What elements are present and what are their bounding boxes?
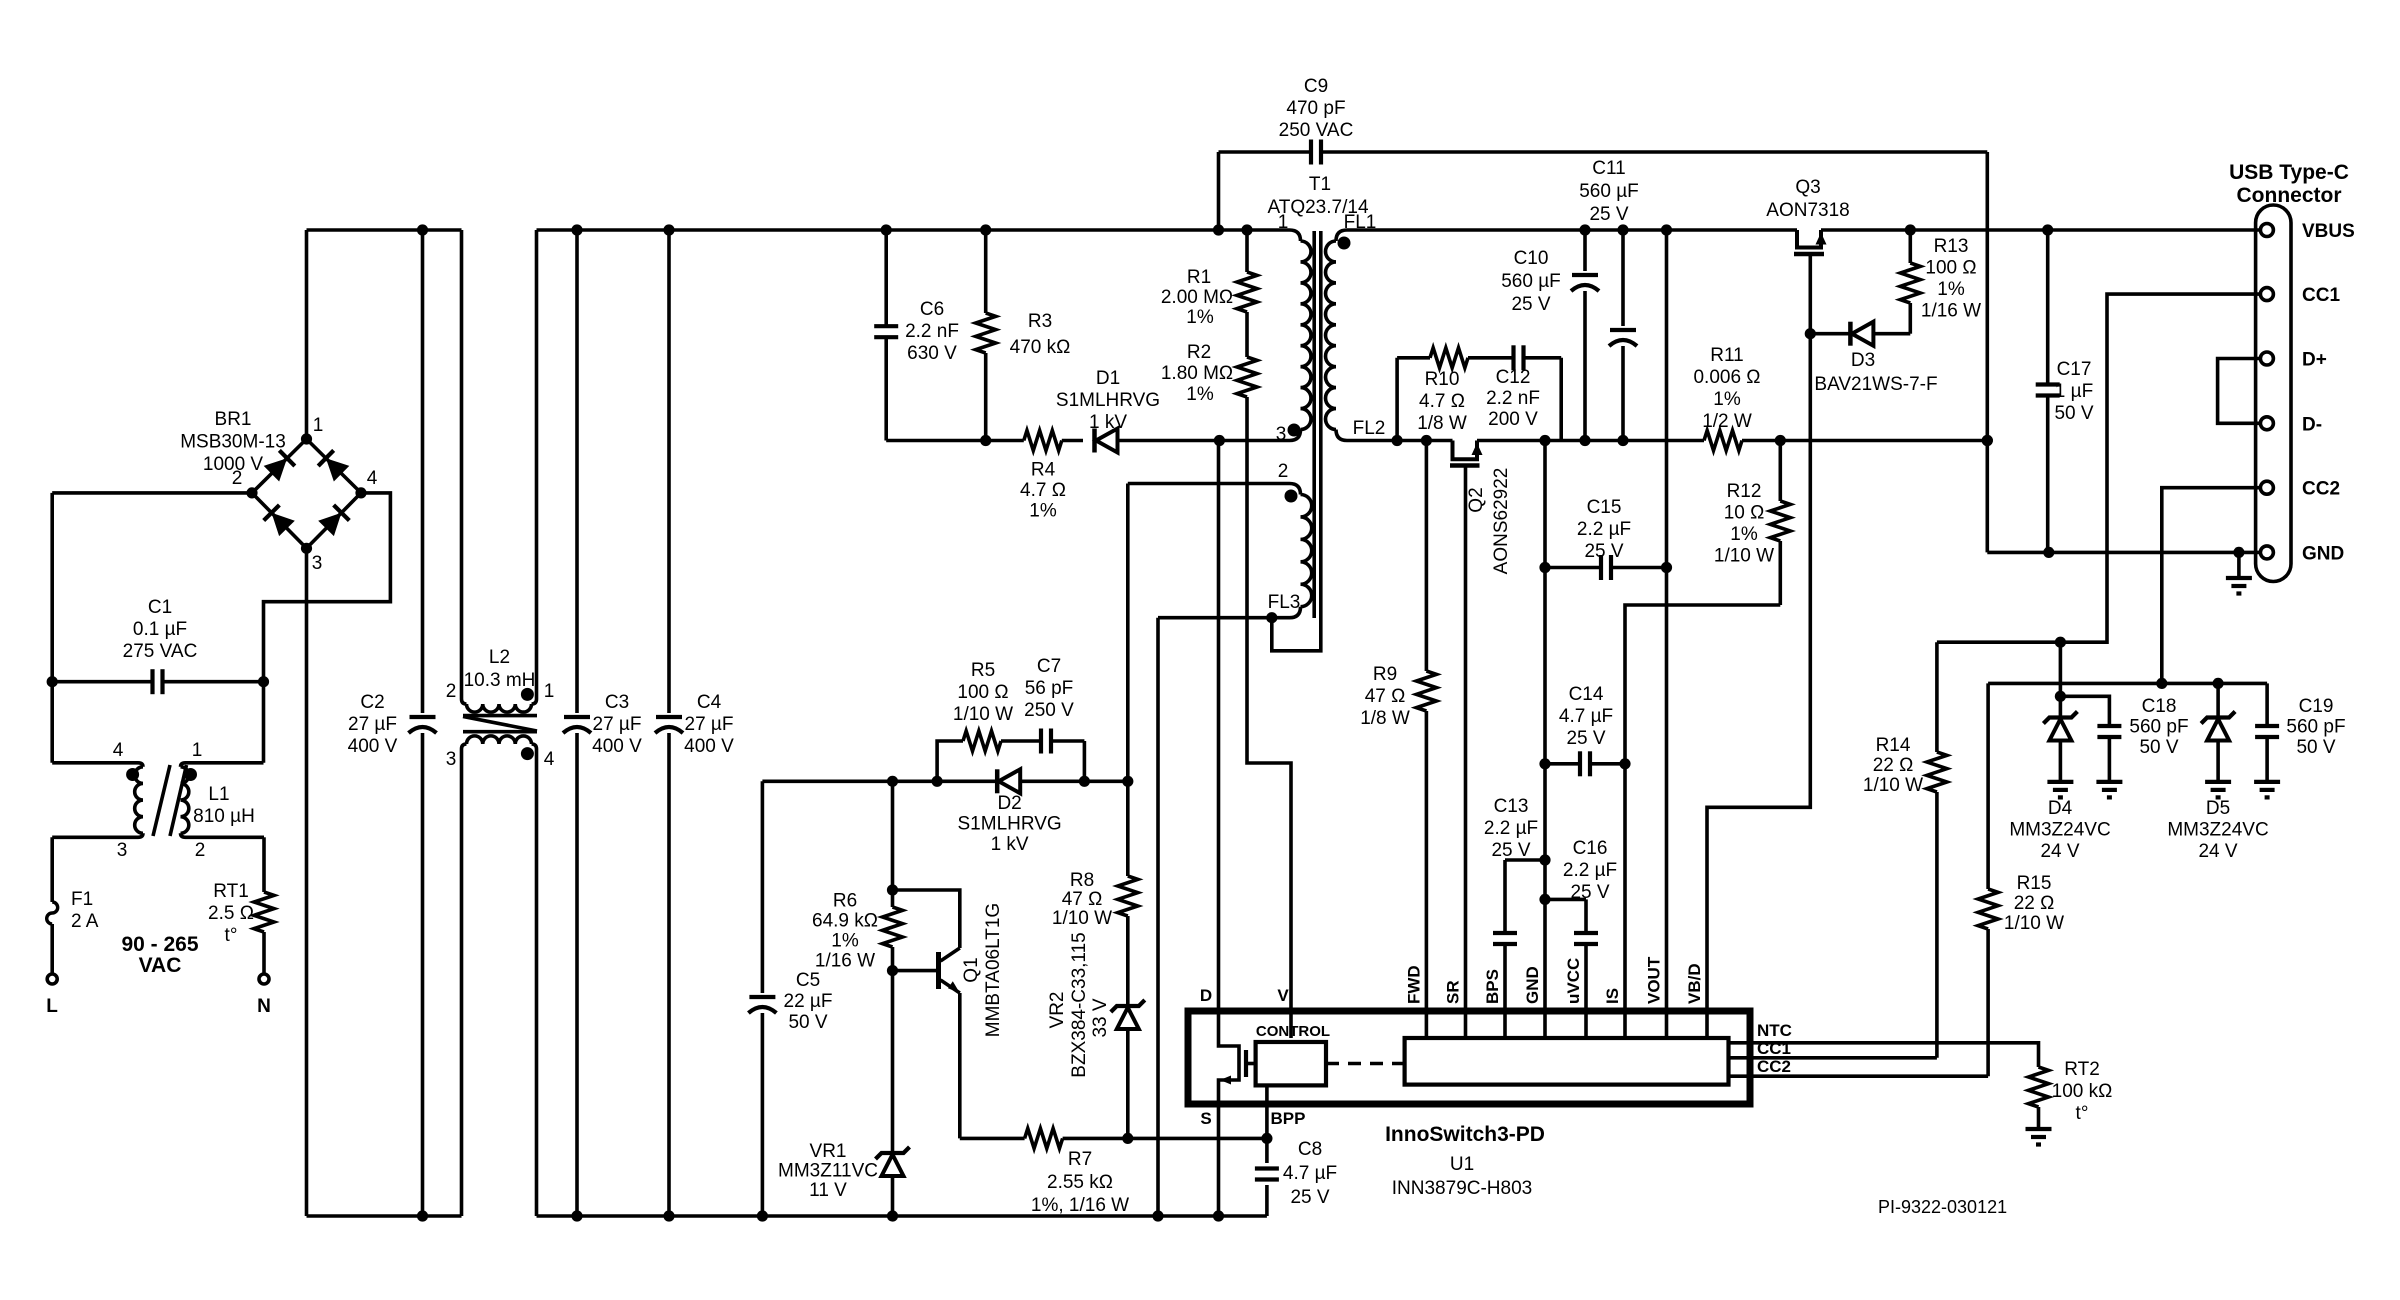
svg-text:L1: L1 [208,784,229,805]
svg-text:R12: R12 [1727,481,1762,502]
svg-text:1%: 1% [1937,279,1965,300]
transformer T1 secondary winding FL1-FL2 [1336,230,1347,241]
wire T1 FL3 to primary ground [1158,616,1290,620]
svg-text:1/8 W: 1/8 W [1417,413,1467,434]
svg-text:VB/D: VB/D [1685,963,1704,1004]
resistor R15 [1986,683,1990,889]
svg-text:R8: R8 [1070,870,1094,891]
svg-text:R4: R4 [1031,460,1056,481]
svg-text:47 Ω: 47 Ω [1365,686,1406,707]
svg-text:25 V: 25 V [1589,204,1628,225]
resistor R2 [1245,326,1249,357]
svg-text:C7: C7 [1037,656,1061,677]
svg-text:10.3 mH: 10.3 mH [464,670,536,691]
wire R7 row [960,1137,1025,1141]
svg-text:RT2: RT2 [2064,1059,2100,1080]
wire D1 to T1 pin3 [1118,439,1290,443]
resistor R9 to FWD pin [1425,441,1429,672]
resistor R3 [984,230,988,313]
svg-text:25 V: 25 V [1491,840,1530,861]
svg-text:1%: 1% [1186,307,1214,328]
svg-text:10 Ω: 10 Ω [1724,503,1765,524]
svg-text:C14: C14 [1569,684,1604,705]
svg-text:R14: R14 [1876,735,1911,756]
svg-text:1/2 W: 1/2 W [1702,411,1752,432]
svg-text:SR: SR [1444,980,1463,1004]
wire NTC to RT2 [1729,1043,2039,1067]
capacitor C12 [1511,345,1515,370]
svg-text:1/10 W: 1/10 W [2004,913,2064,934]
svg-text:t°: t° [225,925,238,946]
svg-text:R1: R1 [1187,267,1211,288]
capacitor C2 [421,230,425,713]
svg-text:C12: C12 [1496,367,1531,388]
terminal L [47,974,57,984]
ground D5 [2205,780,2231,784]
wire R12 to IS pin [1625,605,1780,1038]
wire D pin [1217,441,1221,1012]
node bottom rail junctions right [757,1210,768,1221]
svg-text:R15: R15 [2017,873,2052,894]
wire D+ D- jumper [2218,359,2261,424]
svg-text:D1: D1 [1096,368,1120,389]
svg-text:C3: C3 [605,692,629,713]
wire C1 to L1 pin4 [50,682,54,763]
svg-text:L2: L2 [489,647,510,668]
svg-text:560 pF: 560 pF [2286,717,2345,738]
capacitor C14 [1545,762,1580,766]
svg-text:4.7 µF: 4.7 µF [1559,706,1613,727]
wire GND pin line [1543,441,1547,1039]
capacitor C19 [2265,683,2269,726]
svg-text:C6: C6 [920,299,944,320]
svg-text:1%: 1% [831,931,859,952]
svg-text:V: V [1277,986,1289,1005]
capacitor C9 [1309,140,1313,165]
resistor R14 [1935,642,1939,752]
node top rail junctions [417,224,428,235]
capacitor C10 [1583,230,1587,271]
svg-text:T1: T1 [1309,174,1331,195]
transformer T1 bias winding pin2-FL3 [1290,484,1301,495]
wire FL2 rail [1347,439,1453,443]
svg-text:100 Ω: 100 Ω [1925,258,1976,279]
svg-text:3: 3 [312,553,323,574]
wire clamp bottom row [886,439,1024,443]
resistor R7 [1025,1128,1063,1148]
svg-text:250 VAC: 250 VAC [1279,120,1354,141]
node C1 ends [47,676,58,687]
svg-text:Q3: Q3 [1795,177,1820,198]
diode D3 [1810,332,1849,336]
svg-text:50 V: 50 V [2054,403,2093,424]
svg-text:25 V: 25 V [1570,882,1609,903]
svg-text:VR1: VR1 [810,1141,847,1162]
node C9 GND junction [1982,435,1993,446]
svg-text:400 V: 400 V [684,736,734,757]
svg-text:250 V: 250 V [1024,700,1074,721]
svg-text:C8: C8 [1298,1139,1322,1160]
capacitor C1 [52,680,150,684]
svg-text:4: 4 [367,468,378,489]
svg-text:C19: C19 [2299,696,2334,717]
svg-text:MM3Z24VC: MM3Z24VC [2167,820,2268,841]
wire BR1 pin1 to top rail [305,230,309,439]
svg-text:1/16 W: 1/16 W [815,951,875,972]
svg-text:D: D [1200,986,1212,1005]
inductor L1 common-mode choke [138,763,143,767]
wire CC2 to H2 [2162,488,2261,684]
svg-text:56 pF: 56 pF [1025,678,1074,699]
svg-text:InnoSwitch3-PD: InnoSwitch3-PD [1385,1123,1545,1146]
node FL2 junctions [1392,435,1403,446]
svg-text:BPS: BPS [1483,969,1502,1004]
resistor R1 [1245,230,1249,272]
inductor L2 common-mode choke [460,230,464,699]
svg-text:1 kV: 1 kV [991,834,1029,855]
resistor R12 [1779,441,1783,502]
svg-text:1/16 W: 1/16 W [1921,301,1981,322]
node D pin junction [1214,435,1225,446]
svg-text:50 V: 50 V [2139,737,2178,758]
diode D2 [995,769,1000,793]
svg-text:1: 1 [1278,212,1289,233]
svg-text:D3: D3 [1851,350,1875,371]
wire C9 return to GND [1986,152,1990,552]
svg-text:S: S [1200,1109,1211,1128]
svg-text:BAV21WS-7-F: BAV21WS-7-F [1814,374,1937,395]
capacitor C17 [2046,230,2050,385]
svg-text:NTC: NTC [1757,1021,1792,1040]
svg-text:22 Ω: 22 Ω [1873,755,1914,776]
capacitor C8 [1265,1138,1269,1163]
resistor R10 snubber [1395,358,1399,441]
svg-text:CC2: CC2 [1757,1057,1791,1076]
svg-text:2.55 kΩ: 2.55 kΩ [1047,1172,1113,1193]
fuse F1 [47,902,58,924]
svg-text:VBUS: VBUS [2302,221,2355,242]
svg-text:4.7 Ω: 4.7 Ω [1419,391,1465,412]
wire R11 to output ground [1742,439,1987,443]
svg-text:R5: R5 [971,660,995,681]
svg-text:2: 2 [195,840,206,861]
node T1 primary phase dot [1288,424,1301,437]
zener VR2 [1111,1000,1145,1012]
node FL3 junction [1266,612,1277,623]
zener VR1 [891,971,895,1153]
wire BR1 pin3 to bottom rail [305,548,309,1216]
svg-text:CC1: CC1 [2302,285,2340,306]
svg-text:MSB30M-13: MSB30M-13 [180,432,286,453]
svg-text:AON7318: AON7318 [1766,200,1849,221]
svg-text:R2: R2 [1187,342,1211,363]
svg-text:S1MLHRVG: S1MLHRVG [1056,390,1160,411]
svg-text:275 VAC: 275 VAC [123,641,198,662]
svg-text:2.2 µF: 2.2 µF [1577,519,1631,540]
zener D5 [2216,683,2220,717]
ground RT2 [2037,1107,2041,1129]
wire C9 top link [1219,150,1312,154]
svg-text:GND: GND [2302,543,2344,564]
svg-text:BPP: BPP [1271,1109,1306,1128]
capacitor C15 [1545,566,1601,570]
IC U1 InnoSwitch3-PD outer box [1188,1011,1750,1104]
svg-text:400 V: 400 V [348,736,398,757]
svg-text:25 V: 25 V [1511,294,1550,315]
terminal USB CC1 [2260,288,2273,301]
svg-text:FL2: FL2 [1353,418,1386,439]
node bottom rail junctions [417,1210,428,1221]
svg-text:1/10 W: 1/10 W [1052,908,1112,929]
svg-text:1: 1 [192,740,203,761]
capacitor C6 [884,230,888,326]
svg-text:2.00 MΩ: 2.00 MΩ [1161,287,1233,308]
svg-text:25 V: 25 V [1566,728,1605,749]
svg-text:27 µF: 27 µF [348,714,397,735]
svg-text:Connector: Connector [2237,184,2342,207]
transformer T1 shield return [1272,231,1321,651]
svg-text:N: N [257,996,271,1017]
svg-text:1%: 1% [1029,501,1057,522]
svg-text:U1: U1 [1450,1154,1474,1175]
svg-text:1.80 MΩ: 1.80 MΩ [1161,363,1233,384]
svg-text:2.2 nF: 2.2 nF [1486,388,1540,409]
svg-text:560 µF: 560 µF [1501,271,1561,292]
wire R2 to V pin [1247,420,1291,1038]
wire bias rail [762,779,996,783]
resistor R11 [1704,431,1742,451]
wire C1 to L1 pin1 [262,682,266,763]
node C13 tap [1539,854,1550,865]
ground C18 [2096,780,2122,784]
svg-text:3: 3 [446,749,457,770]
svg-text:S1MLHRVG: S1MLHRVG [958,814,1062,835]
svg-text:R11: R11 [1710,345,1743,366]
wire CC2 row [1988,682,2267,686]
IC U1 CONTROL block [1256,1042,1326,1085]
transistor Q3 VBUS switch [1797,230,1821,248]
terminal USB D- [2260,417,2273,430]
svg-text:L: L [46,996,58,1017]
svg-text:1%: 1% [1186,384,1214,405]
svg-text:INN3879C-H803: INN3879C-H803 [1392,1178,1532,1199]
zener D4 [2059,642,2063,717]
svg-text:1%: 1% [1713,389,1741,410]
wire BPP pin from CONTROL [1265,1085,1269,1138]
wire L1 pin3 to fuse [52,835,138,839]
svg-text:C10: C10 [1514,248,1549,269]
svg-text:47 Ω: 47 Ω [1062,889,1103,910]
svg-text:MMBTA06LT1G: MMBTA06LT1G [983,903,1004,1037]
node CC1 protection tap [2055,637,2066,648]
node R3 bottom [980,435,991,446]
svg-text:2: 2 [1278,461,1289,482]
wire S pin [1217,1104,1221,1216]
node R6 taps [887,884,898,895]
svg-text:D+: D+ [2302,350,2327,371]
wire Q2 drain to R11 [1477,439,1704,443]
svg-text:FWD: FWD [1404,965,1423,1004]
svg-text:1%, 1/16 W: 1%, 1/16 W [1031,1195,1129,1216]
svg-text:3: 3 [117,840,128,861]
wire BR1 pin2 to L side [52,491,252,495]
capacitor C7 [1039,729,1043,754]
wire T1 pin2 to D2 anode [1128,482,1290,486]
svg-text:630 V: 630 V [907,343,957,364]
ground D4 [2047,780,2073,784]
wire R15 to U1 CC2 pin [1729,1074,1989,1078]
wire primary top rail [307,228,462,232]
transformer T1 core [1312,231,1316,618]
node T1 bias phase dot [1285,490,1298,503]
svg-text:C15: C15 [1587,497,1622,518]
svg-text:22 Ω: 22 Ω [2014,893,2055,914]
terminal USB D+ [2260,352,2273,365]
node R1 top [1241,224,1252,235]
svg-text:MM3Z11VC: MM3Z11VC [778,1161,878,1182]
svg-text:3: 3 [1276,424,1287,445]
node C16 tap [1539,894,1550,905]
IC U1 secondary block [1405,1038,1729,1085]
svg-text:AONS62922: AONS62922 [1491,468,1512,575]
svg-text:4: 4 [113,740,124,761]
svg-text:BZX384-C33,115: BZX384-C33,115 [1069,932,1090,1077]
ground C19 [2254,780,2280,784]
thermistor RT1 [262,837,266,892]
svg-text:1 kV: 1 kV [1089,412,1127,433]
wire R14 to U1 CC1 pin [1729,1056,1937,1060]
svg-text:IS: IS [1603,988,1622,1004]
svg-text:100 kΩ: 100 kΩ [2052,1081,2113,1102]
svg-text:C1: C1 [148,597,172,618]
svg-text:2.5 Ω: 2.5 Ω [208,903,254,924]
node C15 ends [1539,562,1550,573]
svg-text:D4: D4 [2048,798,2073,819]
svg-text:C2: C2 [360,692,384,713]
node C18 tap [2055,691,2066,702]
svg-text:11 V: 11 V [809,1180,847,1201]
svg-text:22 µF: 22 µF [784,991,833,1012]
svg-text:90 - 265: 90 - 265 [121,933,198,956]
capacitor C13 to BPS pin [1505,858,1545,862]
capacitor C18 [2060,696,2109,726]
svg-text:Q2: Q2 [1466,487,1487,512]
node D3 anode junction [1805,328,1816,339]
resistor R5 snubber [937,741,963,781]
svg-text:470 pF: 470 pF [1286,98,1345,119]
wire SR pin to Q2 gate [1464,466,1468,1039]
svg-text:VOUT: VOUT [1645,956,1664,1004]
svg-text:200 V: 200 V [1488,409,1538,430]
svg-text:C9: C9 [1304,76,1328,97]
capacitor C11 [1621,230,1625,326]
node T1 FL1 phase dot [1338,237,1351,250]
wire BR1 pin4 to N side [264,493,391,682]
svg-text:D2: D2 [997,793,1021,814]
wire bottom rail [307,1214,462,1218]
svg-text:FL1: FL1 [1344,212,1377,233]
node CC2 row junctions [2156,678,2167,689]
svg-text:D5: D5 [2206,798,2230,819]
svg-text:C16: C16 [1573,838,1608,859]
node clamp top junctions [881,224,892,235]
svg-text:CC1: CC1 [1757,1039,1791,1058]
svg-text:24 V: 24 V [2040,841,2079,862]
node L2 phase dots [521,688,534,701]
ground output [2237,552,2241,578]
svg-text:1: 1 [544,681,555,702]
svg-text:27 µF: 27 µF [685,714,734,735]
svg-text:RT1: RT1 [213,881,249,902]
svg-text:25 V: 25 V [1584,541,1623,562]
svg-text:0.1 µF: 0.1 µF [133,619,187,640]
capacitor C4 [667,230,671,713]
wire L1 pin2 to RT1 [186,835,265,839]
node BPP junction [1261,1133,1272,1144]
svg-text:uVCC: uVCC [1564,958,1583,1004]
svg-text:1%: 1% [1730,524,1758,545]
resistor R8 [1126,781,1130,876]
node C14 ends [1539,758,1550,769]
node VR2 to R7 junction [1122,1133,1133,1144]
svg-text:FL3: FL3 [1268,592,1301,613]
bridge rectifier BR1 [252,439,307,493]
svg-text:400 V: 400 V [592,736,642,757]
svg-text:R3: R3 [1028,311,1052,332]
svg-text:4.7 Ω: 4.7 Ω [1020,480,1066,501]
svg-text:560 µF: 560 µF [1579,181,1639,202]
svg-text:2.2 µF: 2.2 µF [1563,860,1617,881]
svg-text:4: 4 [544,749,555,770]
svg-text:C17: C17 [2057,359,2092,380]
svg-text:Q1: Q1 [961,957,982,982]
svg-text:25 V: 25 V [1290,1187,1329,1208]
resistor R13 [1909,230,1913,263]
svg-text:1 µF: 1 µF [2055,381,2093,402]
svg-text:50 V: 50 V [788,1012,827,1033]
svg-text:R7: R7 [1068,1149,1092,1170]
svg-text:C5: C5 [796,970,820,991]
transformer T1 primary winding pin1-pin3 [1290,230,1301,241]
svg-text:1/10 W: 1/10 W [1714,546,1774,567]
svg-text:R9: R9 [1373,664,1397,685]
wire CONTROL dashed link [1326,1062,1405,1066]
svg-text:2 A: 2 A [71,911,99,932]
svg-text:CONTROL: CONTROL [1256,1023,1330,1040]
wire CC1 to R14 [1937,294,2261,642]
svg-text:VAC: VAC [139,954,182,977]
svg-text:VR2: VR2 [1047,992,1068,1029]
svg-text:PI-9322-030121: PI-9322-030121 [1878,1197,2007,1217]
capacitor C5 [761,781,765,993]
resistor R6 [891,781,895,907]
svg-text:33 V: 33 V [1090,998,1111,1037]
svg-text:GND: GND [1523,966,1542,1004]
terminal USB CC2 [2260,481,2273,494]
svg-text:64.9 kΩ: 64.9 kΩ [812,911,878,932]
svg-text:R6: R6 [833,891,857,912]
svg-text:0.006 Ω: 0.006 Ω [1693,367,1760,388]
diode D1 [1092,429,1097,453]
capacitor C3 [575,230,579,713]
svg-text:2: 2 [446,681,457,702]
transistor Q2 sync rectifier [1453,441,1478,460]
resistor R4 [1024,431,1062,451]
wire output GND row [1987,551,2260,555]
svg-text:t°: t° [2076,1103,2089,1124]
svg-text:470 kΩ: 470 kΩ [1010,337,1071,358]
node bias rail junctions [887,776,898,787]
